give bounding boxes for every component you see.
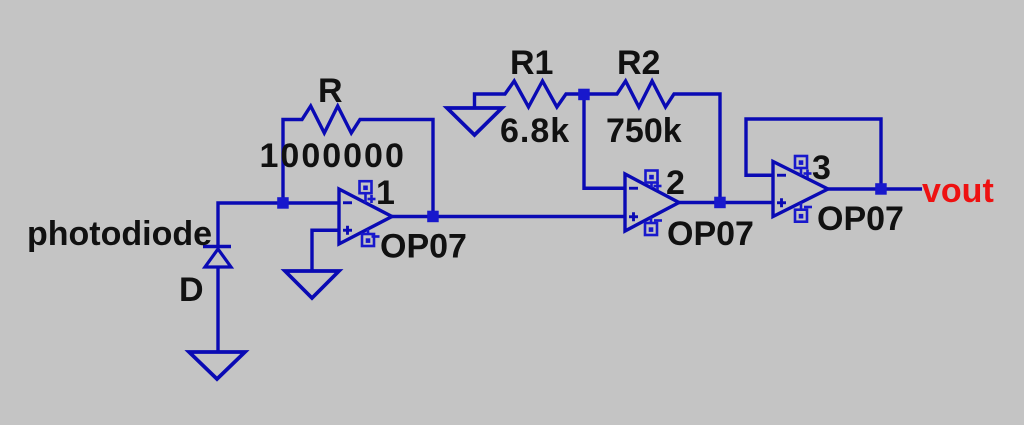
svg-text:1000000: 1000000 <box>260 137 406 175</box>
svg-text:R1: R1 <box>510 44 553 82</box>
svg-text:vout: vout <box>922 172 994 210</box>
svg-text:6.8k: 6.8k <box>500 112 570 150</box>
svg-text:D: D <box>179 271 204 309</box>
svg-text:3: 3 <box>812 149 831 187</box>
svg-text:OP07: OP07 <box>380 228 467 266</box>
svg-text:OP07: OP07 <box>817 200 904 238</box>
svg-text:750k: 750k <box>606 112 682 150</box>
svg-text:2: 2 <box>666 164 685 202</box>
svg-text:R: R <box>318 72 343 110</box>
svg-text:photodiode: photodiode <box>27 215 212 253</box>
svg-text:OP07: OP07 <box>667 215 754 253</box>
svg-text:R2: R2 <box>617 44 660 82</box>
svg-text:1: 1 <box>376 174 395 212</box>
